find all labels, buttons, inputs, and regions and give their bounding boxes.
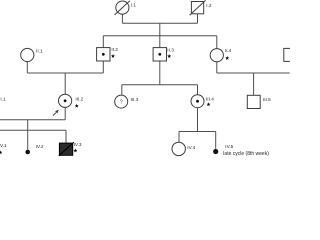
wire descent to III.2	[64, 73, 66, 94]
individual III.2 female carrier proband	[59, 94, 84, 107]
wire drop to IV.2	[27, 130, 29, 150]
individual III.1 label (symbol off-canvas left)	[0, 96, 6, 101]
svg-text:IV.5: IV.5	[225, 144, 233, 149]
wire drop to II.3	[159, 36, 161, 48]
wire drop to II.4	[216, 36, 218, 49]
svg-text:II.2: II.2	[111, 47, 118, 52]
wire sibship line III.3-III.4	[122, 84, 198, 86]
svg-text:III.3: III.3	[131, 97, 139, 102]
individual III.4 female carrier	[191, 95, 214, 108]
wire sibship line generation II	[103, 35, 217, 37]
svg-text:III.1: III.1	[0, 96, 6, 101]
wire drop to IV.4	[178, 132, 180, 143]
svg-text:III.4: III.4	[206, 96, 214, 101]
wire spouse line II.1-II.2	[27, 72, 103, 74]
svg-text:III.5: III.5	[263, 97, 271, 102]
individual IV.5 miscarriage late cycle	[213, 144, 269, 157]
individual II.4 female	[210, 48, 232, 62]
individual IV.3 affected male deceased	[59, 142, 82, 156]
svg-text:III.2: III.2	[75, 96, 83, 101]
svg-text:I.2: I.2	[206, 3, 212, 8]
svg-text:late cycle (8th week): late cycle (8th week)	[223, 151, 269, 157]
individual II.3 male carrier	[153, 47, 174, 61]
wire spouse line II.4-II.5	[217, 72, 290, 74]
individual II.1 female	[21, 48, 43, 61]
wire II.2 drop	[102, 61, 104, 73]
svg-text:IV.3: IV.3	[74, 142, 82, 147]
wire II.4 drop	[216, 62, 218, 73]
wire I.1 drop	[121, 14, 123, 23]
wire I.2 drop	[197, 14, 199, 24]
wire drop to IV.3	[65, 130, 67, 143]
wire drop to IV.5	[215, 132, 217, 149]
svg-text:II.1: II.1	[36, 48, 43, 53]
individual I.1 deceased female	[115, 1, 137, 15]
individual III.5 male	[247, 95, 271, 108]
wire drop to II.2	[102, 36, 104, 48]
svg-text:IV.1: IV.1	[0, 143, 7, 148]
svg-text:II.4: II.4	[225, 48, 232, 53]
wire descent from I couple	[159, 23, 161, 36]
wire II.3 descent	[159, 61, 161, 85]
svg-text:?: ?	[120, 100, 123, 106]
wire III.4 descent	[197, 108, 199, 132]
wire drop to III.3	[121, 85, 123, 96]
svg-text:IV.4: IV.4	[187, 145, 195, 150]
individual IV.2 miscarriage	[25, 144, 44, 154]
svg-text:II.3: II.3	[167, 47, 174, 52]
individual I.2 deceased male	[190, 0, 212, 15]
individual IV.1 label (symbol off-canvas left)	[0, 143, 7, 154]
wire III.2 drop	[64, 107, 66, 119]
individual III.3 female unknown status	[115, 95, 139, 108]
svg-text:I.1: I.1	[131, 2, 137, 7]
svg-text:IV.2: IV.2	[36, 144, 44, 149]
wire descent from III.1 couple	[27, 120, 29, 130]
individual II.5 male (clipped at right edge)	[284, 48, 297, 61]
individual IV.4 female	[172, 142, 196, 155]
wire sibship line IV left	[0, 129, 66, 131]
wire II.1 drop	[26, 62, 28, 73]
wire drop to III.4	[197, 85, 199, 95]
individual II.2 male carrier	[97, 47, 119, 61]
wire descent to III.5	[253, 73, 255, 95]
wire spouse line I.1-I.2	[122, 22, 197, 24]
proband arrow	[53, 110, 59, 116]
wire spouse line III.1-III.2	[0, 119, 65, 121]
wire sibship line IV right	[179, 131, 216, 133]
